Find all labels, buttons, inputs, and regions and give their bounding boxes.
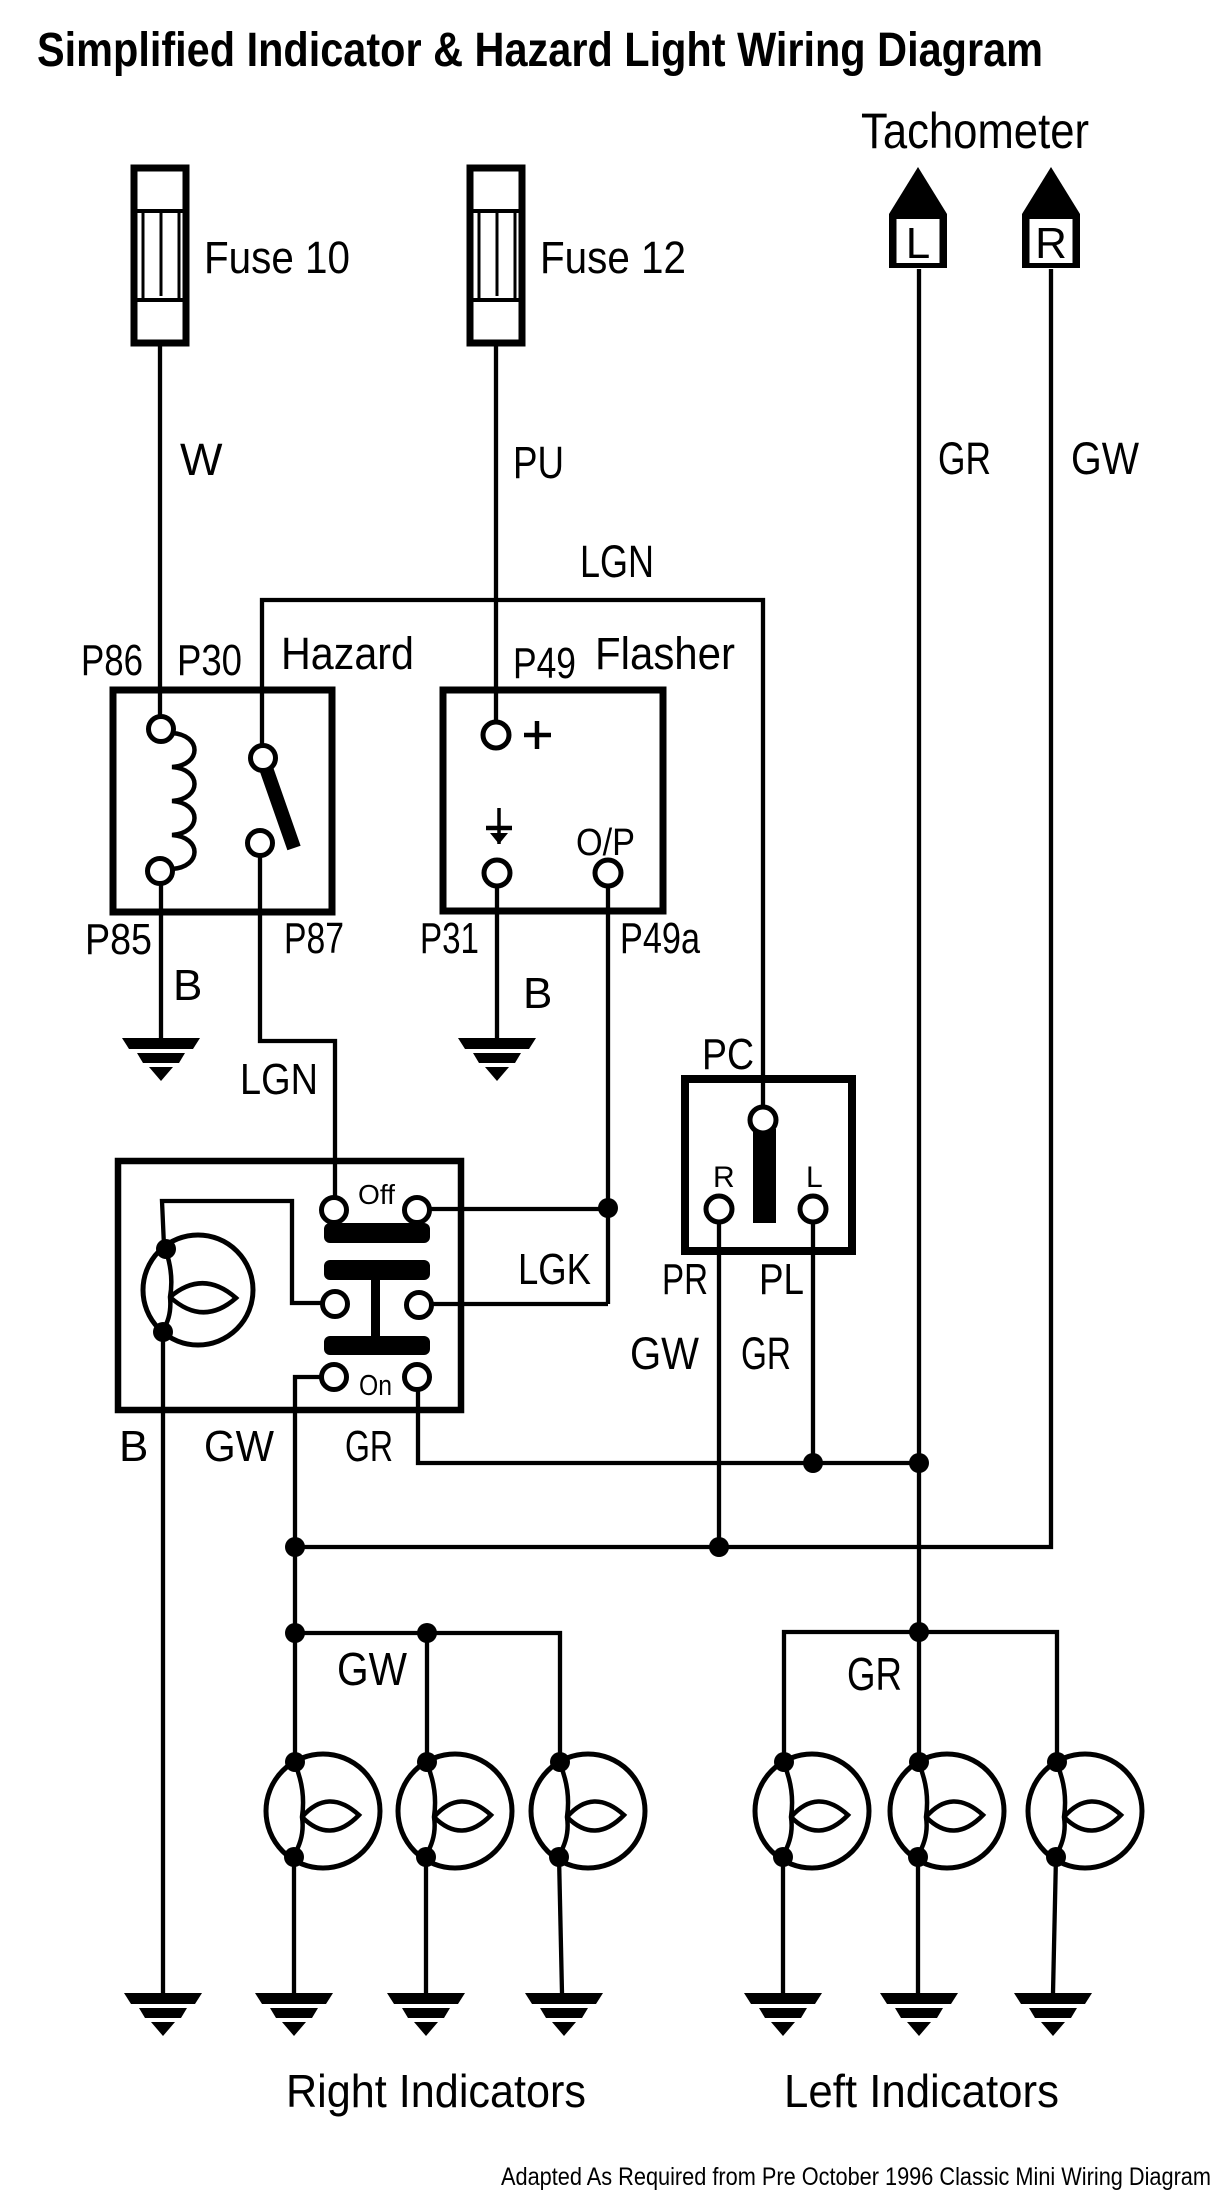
- svg-text:O/P: O/P: [576, 822, 635, 864]
- svg-text:Tachometer: Tachometer: [861, 103, 1089, 159]
- svg-text:P87: P87: [284, 914, 344, 963]
- svg-text:LGK: LGK: [518, 1245, 591, 1294]
- svg-text:PC: PC: [702, 1030, 754, 1079]
- svg-text:P49: P49: [513, 639, 576, 688]
- svg-text:P86: P86: [81, 636, 143, 685]
- svg-text:Off: Off: [358, 1179, 395, 1210]
- svg-text:On: On: [359, 1370, 392, 1402]
- svg-text:Flasher: Flasher: [595, 628, 735, 679]
- svg-text:W: W: [180, 434, 223, 485]
- svg-text:Adapted As Required from Pre O: Adapted As Required from Pre October 199…: [501, 2163, 1211, 2191]
- svg-text:Simplified Indicator & Hazard: Simplified Indicator & Hazard Light Wiri…: [37, 24, 1043, 77]
- svg-text:PL: PL: [759, 1255, 804, 1304]
- svg-text:GR: GR: [938, 433, 991, 484]
- svg-text:B: B: [119, 1422, 148, 1471]
- svg-text:Fuse 12: Fuse 12: [540, 232, 686, 283]
- svg-text:P49a: P49a: [620, 914, 700, 963]
- svg-text:Right Indicators: Right Indicators: [286, 2065, 586, 2117]
- svg-text:R: R: [1035, 219, 1067, 268]
- svg-text:Left Indicators: Left Indicators: [784, 2065, 1059, 2117]
- svg-text:P30: P30: [177, 636, 242, 685]
- svg-text:B: B: [523, 969, 552, 1018]
- svg-text:B: B: [173, 961, 202, 1010]
- svg-text:L: L: [906, 219, 930, 268]
- svg-text:Hazard: Hazard: [281, 628, 414, 679]
- svg-text:GW: GW: [630, 1328, 699, 1379]
- svg-text:GR: GR: [345, 1422, 393, 1471]
- svg-text:L: L: [806, 1161, 823, 1194]
- svg-text:GR: GR: [741, 1328, 791, 1379]
- svg-text:GW: GW: [1071, 433, 1139, 484]
- svg-text:Fuse 10: Fuse 10: [204, 232, 350, 283]
- svg-text:LGN: LGN: [580, 536, 654, 587]
- svg-text:P85: P85: [85, 915, 152, 964]
- svg-text:GW: GW: [337, 1643, 408, 1695]
- svg-text:GR: GR: [847, 1648, 902, 1700]
- svg-text:PR: PR: [662, 1255, 708, 1304]
- svg-text:GW: GW: [204, 1422, 274, 1471]
- svg-text:PU: PU: [513, 437, 564, 488]
- svg-text:R: R: [713, 1161, 735, 1194]
- svg-text:LGN: LGN: [240, 1055, 318, 1104]
- svg-text:P31: P31: [420, 914, 479, 963]
